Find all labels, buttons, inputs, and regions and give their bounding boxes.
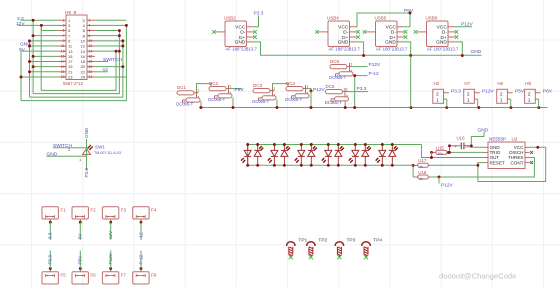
svg-text:P12V: P12V	[441, 183, 454, 189]
junction dot U17 left	[412, 164, 415, 167]
svg-text:P12V: P12V	[313, 87, 326, 93]
svg-text:P12V: P12V	[108, 252, 113, 264]
junction dots H9 left	[20, 19, 43, 79]
svg-text:DC1: DC1	[177, 85, 186, 90]
wire SW1 vertical	[86, 139, 88, 171]
fuse holder F4	[133, 207, 157, 224]
svg-text:TP3: TP3	[347, 237, 356, 243]
svg-text:P3.3: P3.3	[451, 89, 461, 95]
svg-text:24: 24	[81, 75, 86, 80]
svg-text:13: 13	[61, 49, 65, 53]
wire cap left node to TRIG	[449, 146, 451, 153]
wire DC2 drop	[232, 98, 234, 108]
DC jack DC5	[325, 84, 349, 105]
svg-text:TP1: TP1	[298, 237, 307, 243]
DC jack DC1	[176, 85, 200, 106]
USB socket USB2	[212, 15, 257, 51]
svg-text:U18: U18	[418, 170, 427, 175]
wire loop B below H9	[30, 41, 123, 97]
svg-text:2: 2	[528, 91, 531, 97]
svg-text:8: 8	[89, 34, 91, 38]
svg-text:TP4: TP4	[373, 237, 382, 243]
wire USB5 GND to rail	[410, 56, 412, 108]
wire H9 pin24	[95, 76, 126, 78]
wire H9 pin20	[95, 66, 123, 68]
test point TP3	[335, 242, 344, 260]
wire left bus C vertical	[20, 51, 22, 100]
svg-text:12: 12	[89, 44, 93, 48]
wire DC5 out to P3.3	[347, 91, 368, 93]
svg-text:2: 2	[436, 91, 439, 97]
wire DC5 drop	[344, 101, 346, 108]
svg-text:P-12: P-12	[369, 71, 379, 77]
svg-text:5567-2*12: 5567-2*12	[63, 81, 83, 86]
wire U18 right to THRES loop	[430, 158, 534, 178]
wire H9 pin17	[30, 60, 59, 62]
fuse holder F7	[102, 267, 126, 284]
svg-text:P3.3: P3.3	[357, 86, 367, 92]
svg-text:20: 20	[89, 65, 93, 69]
LED pair 3	[295, 143, 317, 167]
svg-text:9: 9	[63, 39, 65, 43]
wire H9 pin19	[33, 66, 58, 68]
svg-text:P6V: P6V	[543, 89, 553, 95]
wire left bus A vertical	[32, 20, 34, 93]
svg-text:AF 180°2JB13.7: AF 180°2JB13.7	[427, 47, 459, 52]
svg-text:1: 1	[500, 98, 503, 104]
svg-text:P5V: P5V	[515, 89, 525, 95]
wire net 5V (F2)	[79, 222, 81, 240]
svg-text:23: 23	[68, 75, 73, 80]
test point TP1	[287, 242, 296, 260]
svg-text:VCC: VCC	[338, 25, 349, 31]
svg-text:GND: GND	[338, 40, 349, 46]
wire loop C below H9	[21, 25, 126, 100]
svg-text:VCC: VCC	[386, 25, 397, 31]
svg-text:F8: F8	[151, 272, 157, 277]
wire OUT row	[422, 145, 484, 158]
svg-text:GND: GND	[478, 127, 489, 133]
svg-text:AF 180°2JB13.7: AF 180°2JB13.7	[329, 47, 361, 52]
wire net 12V	[18, 24, 59, 26]
LED pair 6	[376, 143, 398, 167]
svg-text:+: +	[454, 144, 457, 150]
svg-text:2: 2	[89, 18, 91, 22]
DC jack DC6	[329, 59, 353, 80]
test point TP4	[362, 242, 371, 260]
svg-text:USB6: USB6	[426, 15, 438, 20]
wire DC6 drop to rail	[354, 76, 356, 108]
svg-text:DC005-T: DC005-T	[252, 99, 269, 104]
wire net -12 (F4)	[140, 222, 142, 240]
svg-text:5V: 5V	[19, 47, 26, 53]
LED pair 1	[241, 143, 263, 167]
wire USB5 VCC up	[404, 13, 410, 27]
no-connect DISCH	[530, 151, 533, 154]
svg-text:GND: GND	[471, 49, 482, 55]
test point TP2	[307, 242, 316, 260]
svg-text:2: 2	[467, 91, 470, 97]
svg-text:H8: H8	[525, 81, 531, 86]
wire DC1 drop	[200, 101, 202, 108]
svg-text:14: 14	[89, 49, 93, 53]
svg-text:F7: F7	[121, 272, 127, 277]
capacitor U16 10u	[450, 135, 472, 150]
pin header H6	[497, 81, 525, 108]
svg-text:H7: H7	[464, 81, 470, 86]
wire USB4 GND down	[357, 42, 364, 56]
wire USB4 VCC bus	[357, 13, 411, 27]
svg-text:1: 1	[351, 63, 353, 67]
wire H9 pin3	[41, 25, 58, 30]
svg-text:1k: 1k	[419, 177, 423, 181]
svg-text:F2: F2	[90, 207, 96, 212]
svg-text:11: 11	[61, 44, 65, 48]
resistor U15	[432, 145, 449, 156]
svg-text:P3.3: P3.3	[48, 255, 53, 265]
svg-text:1: 1	[467, 98, 470, 104]
wire DC2 out to P6V	[231, 88, 243, 90]
svg-text:17: 17	[61, 60, 65, 64]
wire H9 pin15	[33, 55, 58, 57]
junction dots U15	[430, 151, 450, 154]
wire H9 pin8	[95, 35, 119, 37]
svg-text:U17: U17	[418, 158, 427, 163]
wire net 12V (F3)	[110, 222, 112, 240]
svg-text:USB4: USB4	[327, 15, 339, 20]
wire U17 right to RESET	[430, 163, 484, 166]
wire net 3.3 (F1)	[49, 222, 51, 240]
svg-text:F3: F3	[121, 207, 127, 212]
junction dots GND bus	[362, 54, 464, 57]
wire USB6 VCC to P12V	[455, 26, 472, 28]
fuse holder F6	[72, 267, 96, 284]
wire net -12	[95, 71, 108, 73]
svg-text:1: 1	[198, 89, 200, 93]
junction dot P6V	[409, 12, 412, 15]
svg-text:U15: U15	[436, 145, 445, 150]
wire H9 pin10	[95, 40, 123, 42]
svg-text:1: 1	[528, 98, 531, 104]
wire GND to SW1	[47, 155, 84, 157]
svg-text:23: 23	[61, 75, 65, 79]
wire left bus D vertical	[40, 25, 42, 90]
svg-text:GND: GND	[436, 40, 447, 46]
svg-text:D-: D-	[240, 30, 245, 36]
svg-text:4: 4	[89, 24, 91, 28]
svg-text:DC005-T: DC005-T	[325, 100, 342, 105]
svg-text:1: 1	[230, 85, 232, 89]
svg-text:18: 18	[89, 60, 93, 64]
svg-text:VCC: VCC	[235, 25, 246, 31]
wire net 5V row	[21, 50, 58, 52]
wire net P5V (F6)	[79, 251, 81, 269]
wire U15 left to OUT node	[431, 152, 433, 157]
wire bridge DC3-DC4	[273, 84, 289, 89]
svg-text:SW1: SW1	[95, 145, 105, 150]
svg-text:F1: F1	[60, 207, 66, 212]
pin header H8	[525, 81, 553, 108]
svg-text:VCC: VCC	[437, 25, 448, 31]
LED pair 2	[268, 143, 290, 167]
wire H9 pin7	[33, 35, 58, 37]
pin header H7	[464, 81, 495, 108]
wire DC6 lower to P-12	[355, 75, 368, 77]
wire P12V stub	[438, 177, 440, 184]
svg-text:3: 3	[63, 24, 65, 28]
svg-text:F4: F4	[151, 207, 157, 212]
svg-text:3.3: 3.3	[17, 16, 24, 22]
svg-text:24: 24	[89, 75, 93, 79]
svg-text:dooooit@ChangeCode: dooooit@ChangeCode	[439, 272, 516, 281]
svg-text:AF 180°2JB13.7: AF 180°2JB13.7	[226, 47, 258, 52]
svg-text:GND: GND	[385, 40, 396, 46]
wire ground rail	[199, 107, 548, 109]
wire USB2 VCC to P3.3	[254, 16, 259, 27]
wire GND flag to U2	[471, 132, 484, 147]
svg-text:DC005-T: DC005-T	[285, 97, 302, 102]
svg-text:F6: F6	[90, 272, 96, 277]
wire LED bottom rail	[248, 164, 413, 166]
svg-text:DC005-T: DC005-T	[329, 75, 346, 80]
svg-text:GND: GND	[235, 40, 246, 46]
wire net P3.3 (F5)	[49, 251, 51, 269]
USB socket USB4	[315, 15, 360, 51]
svg-text:12V: 12V	[108, 230, 113, 239]
svg-text:1: 1	[436, 98, 439, 104]
wire bridge DC1-DC2	[197, 84, 212, 91]
wire H9 pin4	[95, 24, 126, 26]
wire left bus B vertical	[29, 41, 31, 97]
wire net SWITCH	[95, 60, 108, 62]
svg-text:TP2: TP2	[318, 237, 327, 243]
fuse holder F3	[102, 207, 126, 224]
svg-text:P12V: P12V	[482, 89, 495, 95]
wire net GND row	[30, 45, 59, 47]
resistor U17	[413, 158, 430, 169]
LED pair 4	[322, 143, 344, 167]
junction dots VCC/RESET	[476, 146, 539, 167]
wire H9 pin12	[95, 45, 123, 47]
svg-text:RESET: RESET	[490, 160, 506, 165]
wire GND bus horizontal	[261, 54, 482, 56]
svg-text:D-: D-	[391, 30, 396, 36]
svg-text:P12V: P12V	[369, 62, 382, 68]
svg-text:5V: 5V	[78, 232, 83, 239]
svg-text:1: 1	[63, 18, 65, 22]
svg-text:P6V: P6V	[235, 87, 245, 93]
svg-text:15: 15	[61, 55, 65, 59]
pin header H2	[433, 81, 462, 108]
DC jack DC2	[208, 81, 232, 102]
svg-text:P-12: P-12	[138, 254, 143, 264]
LED pair 5	[349, 143, 371, 167]
svg-text:USB2: USB2	[224, 15, 236, 20]
wire LED top rail	[248, 144, 422, 146]
wire H9 pin9	[30, 40, 59, 42]
wire net 3.3	[21, 19, 59, 21]
svg-text:D-: D-	[442, 30, 447, 36]
svg-text:1: 1	[307, 85, 309, 89]
wire SWITCH to SW1	[53, 147, 83, 149]
wire H9 pin6	[95, 30, 119, 32]
wire TRIG row	[449, 151, 484, 153]
svg-text:D-: D-	[343, 30, 348, 36]
op IC U2 NE555P	[484, 137, 530, 169]
svg-text:22: 22	[89, 70, 93, 74]
svg-text:9: 9	[74, 10, 77, 15]
wire net P-12 (F8)	[140, 251, 142, 269]
svg-text:7: 7	[63, 34, 65, 38]
fuse holder F1	[42, 207, 66, 224]
svg-text:H2: H2	[434, 81, 440, 86]
USB socket USB5	[363, 15, 408, 51]
svg-text:DC6: DC6	[330, 59, 339, 64]
wire DC3 drop	[276, 100, 278, 108]
svg-text:USB5: USB5	[375, 15, 387, 20]
DC jack DC3	[252, 83, 276, 104]
wire loop A below H9	[33, 31, 119, 94]
svg-text:F5: F5	[60, 272, 66, 277]
wire DC4 node to rail	[310, 91, 312, 108]
svg-text:DC3: DC3	[253, 83, 262, 88]
fuse holder F2	[72, 207, 96, 224]
wire USB5 GND down	[404, 42, 411, 56]
svg-text:2: 2	[500, 91, 503, 97]
wire VCC loop	[478, 147, 546, 181]
wire loop D below H9	[41, 51, 116, 90]
svg-text:NE555P: NE555P	[489, 137, 506, 142]
svg-text:TM-007-D1-A-03: TM-007-D1-A-03	[94, 151, 121, 155]
no-connect CONT	[530, 161, 533, 164]
svg-text:GND: GND	[84, 127, 89, 138]
DC jack DC4	[285, 81, 309, 102]
svg-text:1: 1	[274, 87, 276, 91]
svg-text:10: 10	[89, 39, 93, 43]
svg-text:19: 19	[61, 65, 65, 69]
resistor U18	[413, 170, 430, 181]
fuse holder F5	[42, 267, 66, 284]
svg-text:1k: 1k	[419, 165, 423, 169]
junction dot DC6 drop	[353, 74, 356, 77]
junction dots U16	[448, 144, 473, 153]
junction dot U18 node	[438, 176, 441, 179]
svg-text:5: 5	[63, 29, 65, 33]
svg-text:P3.3: P3.3	[84, 168, 89, 178]
svg-text:-12: -12	[138, 232, 143, 239]
fuse holder F8	[133, 267, 157, 284]
wire U17-U18 left link	[412, 165, 414, 177]
svg-text:1: 1	[346, 88, 348, 92]
connector H9	[58, 10, 95, 86]
wire H9 pin23	[21, 76, 58, 78]
svg-text:21: 21	[61, 70, 65, 74]
svg-text:AF 180°2JB13.7: AF 180°2JB13.7	[376, 47, 408, 52]
USB socket USB6	[414, 15, 459, 51]
svg-text:H9: H9	[65, 10, 71, 15]
wire net P12V (F7)	[110, 251, 112, 269]
wire USB2 GND down	[254, 42, 261, 56]
wire DC4 out	[308, 89, 312, 91]
svg-text:U16: U16	[457, 135, 466, 140]
wire H9 pin21	[30, 71, 59, 73]
svg-text:12V: 12V	[16, 21, 25, 27]
junction dot OUT node	[430, 156, 433, 159]
svg-text:P5V: P5V	[78, 255, 83, 265]
junction dots ground rail	[200, 106, 541, 109]
svg-text:6: 6	[89, 29, 91, 33]
svg-text:H6: H6	[497, 81, 503, 86]
svg-text:CONT: CONT	[510, 160, 523, 165]
junction dot DC4 out	[310, 90, 313, 93]
svg-text:3.3: 3.3	[48, 232, 53, 239]
switch SW1	[68, 145, 93, 162]
svg-text:16: 16	[89, 55, 93, 59]
wire DC6 out to P12V	[352, 66, 368, 68]
wire LED left end	[247, 145, 249, 166]
svg-text:DC005-T: DC005-T	[208, 97, 225, 102]
svg-text:30k: 30k	[438, 152, 444, 156]
wire H9 pin14	[95, 50, 119, 52]
wire USB6 GND down	[455, 42, 462, 56]
svg-text:U2: U2	[512, 137, 518, 142]
junction dots H9 right	[115, 24, 128, 68]
svg-text:DC5: DC5	[326, 84, 335, 89]
svg-text:DC005-T: DC005-T	[176, 101, 193, 106]
wire H9 pin2	[95, 19, 126, 21]
